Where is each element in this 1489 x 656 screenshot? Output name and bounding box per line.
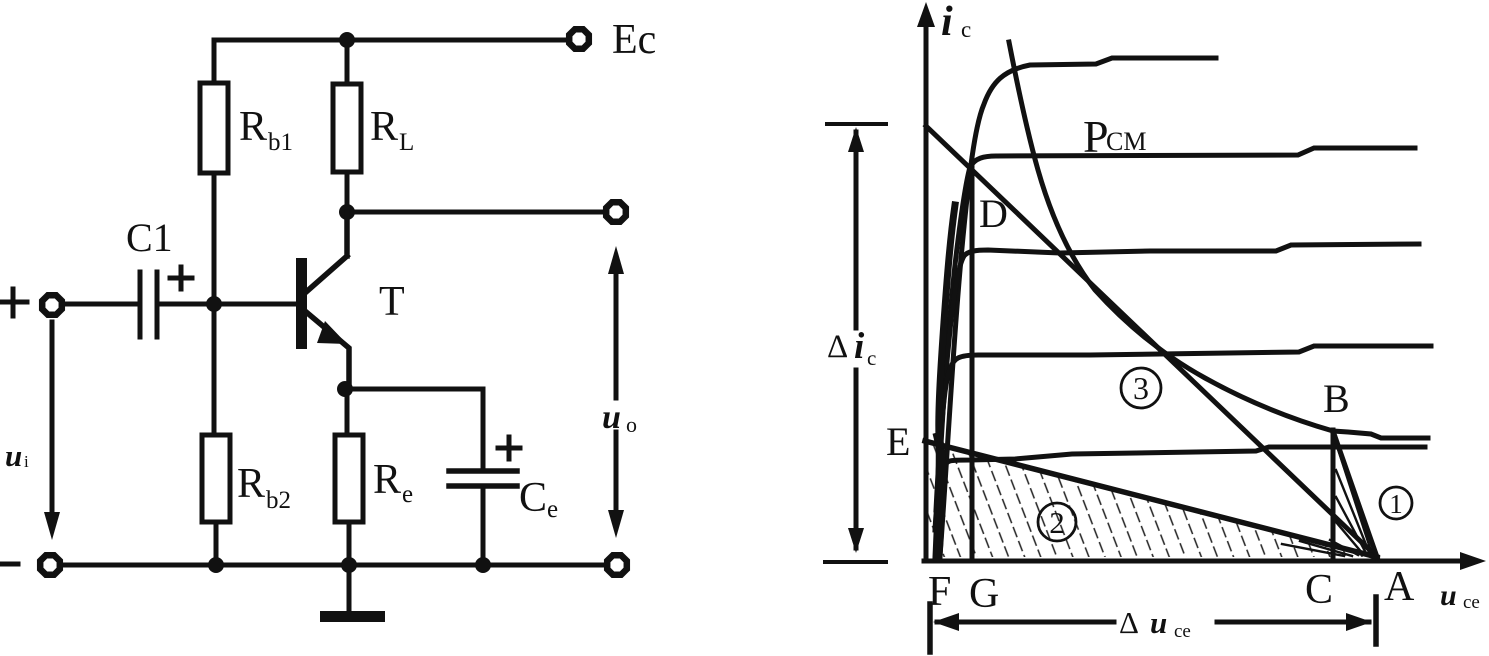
svg-text:e: e [547,496,558,523]
label - input [0,562,18,567]
svg-text:Δ: Δ [1119,605,1139,640]
svg-text:u: u [1440,579,1457,612]
label PCM [1083,111,1146,162]
capacitor Ce [449,471,517,486]
svg-text:o: o [626,412,637,437]
curve 3 [937,244,1419,500]
svg-text:L: L [399,129,414,156]
svg-text:u: u [1150,605,1167,640]
label + Ce [498,437,520,459]
svg-text:D: D [979,191,1008,236]
node emitter junction [337,381,353,397]
region 2 hatch [927,441,1377,557]
node base junction [206,296,222,312]
svg-text:C: C [1305,567,1333,613]
label ui [5,438,29,473]
terminal Ec [569,29,589,49]
svg-text:3: 3 [1133,370,1149,406]
label + C1 [170,267,192,289]
curve 1 [940,58,1216,556]
resistor Re [335,435,363,522]
label delta ic [827,326,876,370]
ground [320,565,385,622]
svg-text:c: c [867,346,876,370]
svg-text:b1: b1 [268,129,293,156]
wire Ce to bottom rail [481,486,486,565]
svg-text:ce: ce [1174,621,1191,642]
line B-C vertical [1331,430,1336,559]
curve B right [1333,431,1428,438]
label + input [0,289,27,316]
node Ce rail junction [475,557,491,573]
wire Rb1 bottom to base node [212,173,217,304]
arrow ui [44,322,60,540]
svg-text:2: 2 [1049,505,1065,540]
terminal output top [606,202,626,222]
wire top rail [214,38,568,43]
wire RL bottom to collector node [345,172,350,212]
wire Re to bottom rail [347,522,352,565]
axis x [924,552,1486,570]
label Ce [519,475,558,523]
terminal input top [42,295,62,315]
circled 3 [1121,368,1161,408]
node Re rail junction [341,557,357,573]
svg-text:1: 1 [1389,489,1403,519]
svg-text:Δ: Δ [827,329,848,365]
label RL [370,104,414,156]
resistor Rb2 [202,435,230,522]
svg-text:E: E [886,419,910,464]
line B-A [1333,431,1377,557]
wire base node to transistor [214,302,295,307]
node top (RL/Rb1 rail junction) [339,32,355,48]
svg-text:b2: b2 [266,487,291,514]
svg-text:R: R [373,457,401,503]
svg-text:P: P [1083,111,1109,162]
node collector/output junction [339,204,355,220]
circled 1 [1380,487,1412,519]
label ic [941,0,971,45]
label Rb2 [237,461,291,514]
transistor T [296,212,349,389]
wire RL top [345,40,350,84]
svg-text:B: B [1323,376,1350,421]
svg-text:i: i [24,452,29,471]
wire bottom rail [63,563,605,568]
label Rb1 [239,104,293,156]
capacitor C1 [140,272,157,337]
dimension delta uce [930,597,1376,652]
svg-text:c: c [961,17,971,42]
svg-text:C: C [519,475,547,521]
wire base node to Rb2 [212,304,217,435]
svg-text:C1: C1 [126,215,173,260]
svg-text:i: i [941,0,953,45]
wire Rb1 top [212,40,217,83]
wire output [347,210,604,215]
axis y [917,2,935,560]
line G vertical [970,159,975,559]
svg-text:e: e [402,481,413,508]
terminal output bottom [607,555,627,575]
resistor Rb1 [200,83,228,173]
svg-text:Ec: Ec [612,17,656,63]
svg-text:ce: ce [1463,592,1480,613]
wire Rb2 to bottom rail [214,522,219,565]
wire emitter to Ce [345,389,483,470]
resistor RL [333,84,361,172]
circled 2 [1038,503,1076,541]
svg-text:u: u [602,399,621,436]
svg-text:R: R [370,104,398,150]
wire input to C1 [64,302,140,307]
label uo [602,399,637,437]
curve 5 [935,447,1425,530]
svg-text:G: G [969,571,999,617]
svg-text:i: i [854,326,865,367]
svg-text:R: R [237,461,265,507]
line E-A [925,441,1377,557]
curve bundle near origin [936,205,955,557]
svg-text:R: R [239,104,267,150]
svg-text:u: u [5,438,22,473]
label uce [1440,579,1480,613]
terminal input bottom [40,555,60,575]
wire C1 to base node [157,302,214,307]
wire emitter to Re [345,389,350,435]
arrow uo [608,246,624,538]
curve PCM hyperbola [1009,42,1333,431]
label Re [373,457,413,508]
svg-text:CM: CM [1106,127,1146,156]
dimension delta ic [825,124,886,562]
svg-text:A: A [1384,564,1415,610]
load line [926,126,1377,557]
label delta uce [1119,605,1191,642]
curve 4 [936,346,1431,510]
curve 2 [938,148,1415,500]
region 1 hatch [1282,443,1371,556]
node Rb2 rail junction [208,557,224,573]
svg-text:T: T [379,279,405,325]
